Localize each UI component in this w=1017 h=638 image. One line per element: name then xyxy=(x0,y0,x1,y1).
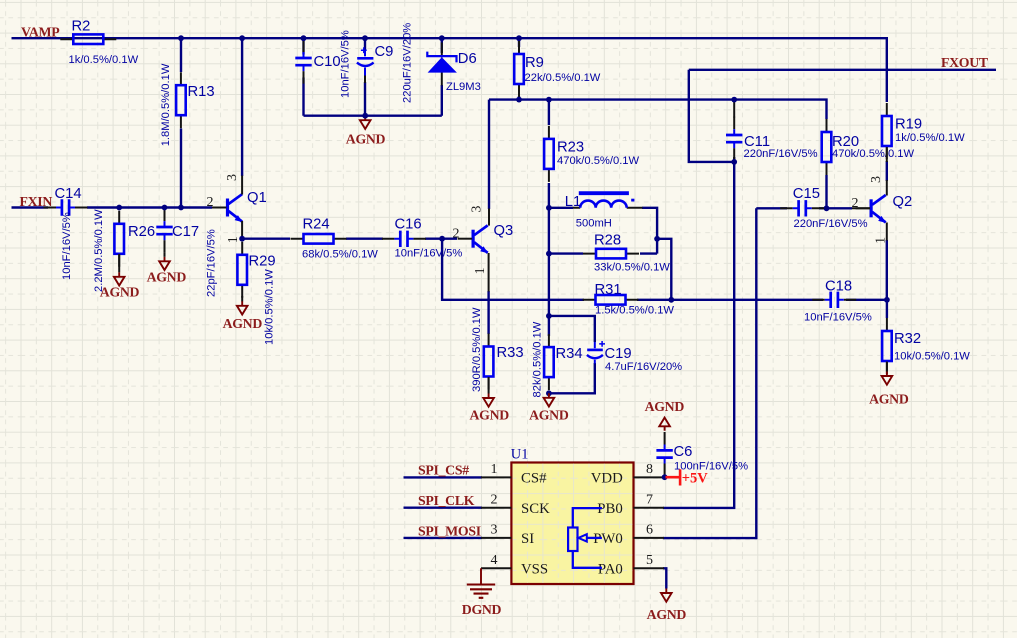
node R26 top xyxy=(116,205,122,211)
potentiometer symbol inside U1 xyxy=(568,508,602,568)
svg-text:68k/0.5%/0.1W: 68k/0.5%/0.1W xyxy=(302,249,378,261)
wire R34 bottom xyxy=(548,391,550,393)
svg-text:U1: U1 xyxy=(511,447,529,463)
node C9 bottom rail xyxy=(362,113,368,119)
node Q3 base junction xyxy=(439,236,445,242)
ground AGND under R33 xyxy=(483,394,494,407)
wire R31 to C18 xyxy=(637,299,823,301)
resistor R33 xyxy=(484,334,494,390)
node tank feedback top xyxy=(654,236,660,242)
svg-text:R13: R13 xyxy=(188,84,215,100)
wire FXIN to Q1 base xyxy=(12,206,213,208)
svg-text:R28: R28 xyxy=(594,233,621,249)
inductor L1 xyxy=(565,193,643,229)
wire C19 loop xyxy=(549,316,595,393)
ground AGND above C6 xyxy=(659,418,670,431)
svg-text:1: 1 xyxy=(226,236,241,243)
svg-text:3: 3 xyxy=(869,176,884,183)
wire C15 row xyxy=(756,207,852,209)
svg-text:R34: R34 xyxy=(556,346,583,362)
node D6 top xyxy=(439,35,445,41)
svg-text:390R/0.5%/0.1W: 390R/0.5%/0.1W xyxy=(471,307,483,392)
node R9 bottom xyxy=(516,97,522,103)
resistor R24 xyxy=(291,234,347,244)
svg-text:22pF/16V/5%: 22pF/16V/5% xyxy=(205,229,217,297)
svg-text:2: 2 xyxy=(207,195,214,210)
capacitor C6 xyxy=(656,432,672,476)
power +5V xyxy=(666,469,709,486)
resistor R20 xyxy=(822,119,832,175)
svg-text:Q3: Q3 xyxy=(494,223,514,239)
pin wire Q3 emitter xyxy=(488,253,490,292)
wire R19 to Q2 collector xyxy=(886,161,888,181)
svg-text:4: 4 xyxy=(491,553,498,568)
pin wire R26 bottom xyxy=(118,254,120,272)
pin wire Q2 emitter xyxy=(886,223,888,241)
wire L1 row xyxy=(549,208,657,254)
pin wire Q2 base xyxy=(852,207,870,209)
node L1 left xyxy=(546,205,552,211)
svg-text:ZL9M3: ZL9M3 xyxy=(446,81,481,93)
svg-text:10nF/16V/5%: 10nF/16V/5% xyxy=(804,311,872,323)
capacitor C14 xyxy=(44,199,88,215)
svg-text:1: 1 xyxy=(491,462,498,477)
resistor R34 xyxy=(544,334,554,390)
svg-text:1k/0.5%/0.1W: 1k/0.5%/0.1W xyxy=(69,54,139,66)
svg-text:C15: C15 xyxy=(793,186,820,202)
zener diode D6 xyxy=(427,43,481,94)
wire R13 branch xyxy=(180,38,182,207)
resistor R31 xyxy=(583,295,639,305)
svg-text:10k/0.5%/0.1W: 10k/0.5%/0.1W xyxy=(264,269,276,345)
svg-text:PW0: PW0 xyxy=(593,531,623,547)
transistor Q3 xyxy=(458,225,488,253)
svg-text:SPI_MOSI: SPI_MOSI xyxy=(418,523,481,538)
svg-text:R32: R32 xyxy=(894,331,921,347)
node C11 bottom xyxy=(731,159,737,165)
node C9 top xyxy=(362,35,368,41)
wire VAMP rail xyxy=(12,38,887,102)
svg-text:SI: SI xyxy=(521,531,534,547)
svg-text:+5V: +5V xyxy=(682,470,709,486)
node C11 top xyxy=(731,97,737,103)
node R23 top xyxy=(546,97,552,103)
pin wire C9 bottom xyxy=(364,72,366,83)
wire left tank vertical xyxy=(548,208,550,316)
svg-text:500mH: 500mH xyxy=(576,218,612,230)
IC U1 pins xyxy=(481,477,664,568)
svg-text:2: 2 xyxy=(453,227,460,242)
wire R34 top xyxy=(548,316,550,336)
wire C16 to Q3 base xyxy=(425,237,457,239)
svg-text:VDD: VDD xyxy=(591,471,623,487)
svg-text:4.7uF/16V/20%: 4.7uF/16V/20% xyxy=(605,361,682,373)
svg-text:2: 2 xyxy=(491,493,498,508)
svg-text:1k/0.5%/0.1W: 1k/0.5%/0.1W xyxy=(895,132,965,144)
svg-text:R9: R9 xyxy=(525,55,544,71)
svg-text:6: 6 xyxy=(646,523,653,538)
svg-text:AGND: AGND xyxy=(147,270,187,285)
svg-text:DGND: DGND xyxy=(462,602,502,617)
IC U1 body xyxy=(511,447,634,584)
svg-text:AGND: AGND xyxy=(647,607,687,622)
svg-text:L1: L1 xyxy=(565,194,581,210)
resistor R29 xyxy=(237,242,247,298)
svg-text:3: 3 xyxy=(225,174,240,181)
svg-text:AGND: AGND xyxy=(100,285,140,300)
pin wire R29 bottom xyxy=(241,296,243,302)
wire C15 left to PW0 xyxy=(663,208,756,538)
svg-text:5: 5 xyxy=(646,553,653,568)
svg-text:Q1: Q1 xyxy=(247,190,267,206)
svg-text:33k/0.5%/0.1W: 33k/0.5%/0.1W xyxy=(594,262,670,274)
node C17 top xyxy=(162,205,168,211)
wire Q3 base net down xyxy=(442,239,584,300)
wire tank feedback xyxy=(657,239,671,300)
svg-text:470k/0.5%/0.1W: 470k/0.5%/0.1W xyxy=(557,155,640,167)
node C18 right Q2 emitter R32 xyxy=(884,297,890,303)
svg-text:SPI_CLK: SPI_CLK xyxy=(418,493,475,508)
ground AGND under C17 xyxy=(159,257,170,270)
svg-text:C10: C10 xyxy=(314,54,341,70)
svg-text:220nF/16V/5%: 220nF/16V/5% xyxy=(744,148,818,160)
svg-text:CS#: CS# xyxy=(521,471,547,487)
wire SPI_MOSI wire xyxy=(404,537,483,539)
capacitor C15 xyxy=(780,200,824,216)
wire C10 branch xyxy=(302,39,304,116)
svg-text:R29: R29 xyxy=(249,254,276,270)
wire C9 branch xyxy=(364,39,366,116)
svg-text:220nF/16V/5%: 220nF/16V/5% xyxy=(794,218,868,230)
wire SPI_CS# wire xyxy=(404,476,483,478)
ground AGND at PA0 pin5 xyxy=(661,589,672,602)
ground DGND xyxy=(462,568,502,617)
svg-text:SPI_CS#: SPI_CS# xyxy=(418,462,469,477)
transistor Q2 xyxy=(856,195,886,223)
capacitor C18 xyxy=(812,292,856,308)
node R13 bottom xyxy=(178,205,184,211)
pin wire C11 top xyxy=(733,101,735,118)
svg-text:C14: C14 xyxy=(55,186,82,202)
svg-text:VSS: VSS xyxy=(521,562,548,578)
svg-text:3: 3 xyxy=(470,206,485,213)
svg-text:C6: C6 xyxy=(674,444,693,460)
pin wire C17 bottom xyxy=(164,253,166,257)
wire FXOUT xyxy=(689,69,996,71)
node C10 top xyxy=(301,35,307,41)
svg-text:FXIN: FXIN xyxy=(20,194,53,209)
resistor R9 xyxy=(514,41,524,97)
pin wire R32 bottom xyxy=(886,362,888,372)
pin wire Q1 collector xyxy=(241,176,243,195)
resistor R19 xyxy=(882,103,892,159)
svg-text:R19: R19 xyxy=(895,117,922,133)
wire SPI_CLK wire xyxy=(404,507,483,509)
capacitor C19 xyxy=(587,341,682,373)
svg-text:C19: C19 xyxy=(605,346,632,362)
wire R24 to C16 xyxy=(346,237,383,239)
node R20 bottom C15 row xyxy=(824,205,830,211)
svg-text:AGND: AGND xyxy=(529,407,569,422)
transistor Q1 xyxy=(212,194,242,222)
svg-text:R33: R33 xyxy=(497,345,524,361)
resistor R2 xyxy=(60,34,116,44)
node R28 left xyxy=(546,251,552,257)
capacitor C17 xyxy=(156,209,172,253)
svg-text:220uF/16V/20%: 220uF/16V/20% xyxy=(402,23,414,103)
svg-text:Q2: Q2 xyxy=(893,194,913,210)
node R13 top xyxy=(178,35,184,41)
svg-text:FXOUT: FXOUT xyxy=(941,55,988,70)
svg-text:AGND: AGND xyxy=(645,399,685,414)
svg-text:22k/0.5%/0.1W: 22k/0.5%/0.1W xyxy=(525,72,601,84)
ground AGND under R32 xyxy=(882,372,893,385)
wire FXOUT drop to C11 bottom xyxy=(689,70,734,162)
wire Q2 emitter down xyxy=(886,240,888,300)
node R34 top junction xyxy=(546,313,552,319)
pin wire Q3 collector xyxy=(488,209,490,226)
svg-text:1.5k/0.5%/0.1W: 1.5k/0.5%/0.1W xyxy=(595,305,674,317)
svg-text:R31: R31 xyxy=(595,282,622,298)
svg-text:10nF/16V/5%: 10nF/16V/5% xyxy=(339,30,351,98)
svg-text:82k/0.5%/0.1W: 82k/0.5%/0.1W xyxy=(531,321,543,397)
svg-text:VAMP: VAMP xyxy=(21,25,60,40)
wire R32 top xyxy=(886,300,888,318)
svg-text:R24: R24 xyxy=(303,217,330,233)
svg-text:C16: C16 xyxy=(395,217,422,233)
resistor R28 xyxy=(583,249,639,259)
svg-text:R26: R26 xyxy=(128,224,155,240)
wire pin5 to AGND xyxy=(663,568,666,588)
svg-text:C17: C17 xyxy=(172,224,199,240)
node Q1 emitter junction xyxy=(239,236,245,242)
pin wire R33 bottom xyxy=(488,377,490,394)
svg-text:10k/0.5%/0.1W: 10k/0.5%/0.1W xyxy=(894,351,970,363)
svg-text:10nF/16V/5%: 10nF/16V/5% xyxy=(61,212,73,280)
capacitor C16 xyxy=(382,231,426,247)
pin wire Q1 emitter xyxy=(241,221,243,239)
svg-text:8: 8 xyxy=(646,462,653,477)
svg-text:AGND: AGND xyxy=(346,132,386,147)
wire R23 branch xyxy=(548,100,550,208)
wire C18 to Q2 emitter node xyxy=(846,299,887,301)
wire Q1 emitter node to R24 xyxy=(242,237,290,239)
svg-text:C18: C18 xyxy=(825,278,852,294)
svg-text:AGND: AGND xyxy=(223,316,263,331)
ground AGND under R29 xyxy=(237,301,248,314)
svg-text:D6: D6 xyxy=(458,51,477,67)
wire Q1 collector xyxy=(241,38,243,176)
node VDD pin8 junction xyxy=(662,474,668,480)
svg-text:3: 3 xyxy=(491,523,498,538)
svg-text:C9: C9 xyxy=(375,44,394,60)
wire R9 branch xyxy=(518,38,520,99)
svg-text:AGND: AGND xyxy=(469,407,509,422)
wire D6 branch xyxy=(441,39,443,116)
capacitor C10 xyxy=(295,40,311,84)
svg-text:SCK: SCK xyxy=(521,501,550,517)
ground AGND under R26 xyxy=(114,272,125,285)
wire mid rail to R20 xyxy=(489,100,827,209)
resistor R32 xyxy=(882,318,892,374)
wire C11 bottom to PB0 xyxy=(663,157,734,508)
svg-text:AGND: AGND xyxy=(869,391,909,406)
wire AGND rail under C10 C9 D6 xyxy=(304,114,442,116)
svg-text:PA0: PA0 xyxy=(598,562,623,578)
wire Q3 collector xyxy=(488,100,490,209)
svg-text:1: 1 xyxy=(473,267,488,274)
pin wire Q2 collector xyxy=(886,147,888,196)
wire R28 row xyxy=(549,252,657,254)
svg-text:10nF/16V/5%: 10nF/16V/5% xyxy=(395,248,463,260)
capacitor C11 xyxy=(726,117,742,161)
node R9 top xyxy=(516,35,522,41)
node Q1 collector top xyxy=(239,35,245,41)
node R34 bottom junction xyxy=(546,390,552,396)
svg-text:7: 7 xyxy=(646,493,653,508)
svg-text:2.2M/0.5%/0.1W: 2.2M/0.5%/0.1W xyxy=(93,209,105,292)
capacitor C9 xyxy=(357,23,414,103)
svg-text:R23: R23 xyxy=(557,139,584,155)
svg-text:470k/0.5%/0.1W: 470k/0.5%/0.1W xyxy=(832,148,915,160)
resistor R26 xyxy=(114,211,124,267)
ground AGND under R34 xyxy=(544,393,555,406)
resistor R13 xyxy=(176,72,186,128)
svg-text:R2: R2 xyxy=(72,18,91,34)
node feedback to R31 wire xyxy=(668,297,674,303)
wire Q3 emitter to R33 xyxy=(487,291,489,334)
resistor R23 xyxy=(544,126,554,182)
svg-text:1.8M/0.5%/0.1W: 1.8M/0.5%/0.1W xyxy=(160,63,172,146)
ground AGND under C9 rail xyxy=(360,116,371,129)
